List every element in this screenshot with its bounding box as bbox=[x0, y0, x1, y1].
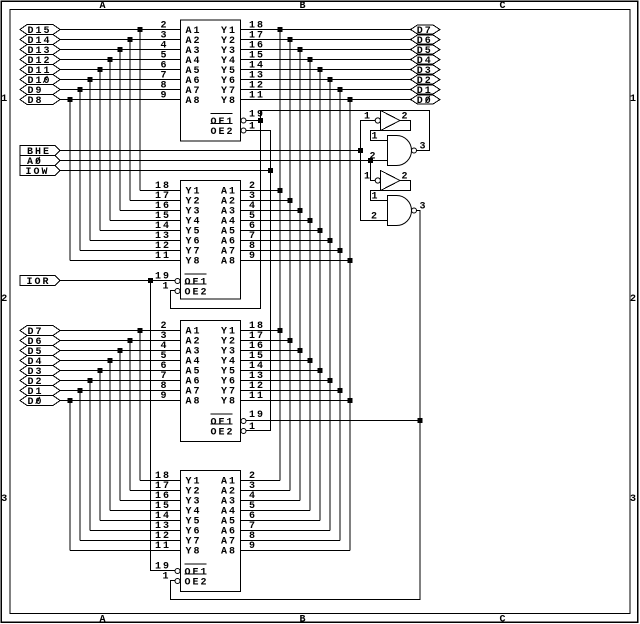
wire U3.Y1 pin to bus bbox=[241, 330, 281, 332]
svg-text:19: 19 bbox=[249, 410, 265, 421]
junction IOW/OE2 net bbox=[268, 168, 273, 173]
node D7 (lower-left connector) bbox=[20, 326, 60, 339]
svg-text:OE2: OE2 bbox=[185, 288, 209, 299]
junction U2.A7/bus bbox=[338, 248, 343, 253]
junction U2.A8/bus bbox=[348, 258, 353, 263]
junction D10/branch bbox=[88, 77, 93, 82]
junction U2.A6/bus bbox=[328, 238, 333, 243]
U2 pin 14 (Y5) label bbox=[155, 221, 202, 238]
wire D15 vertical to U2.Y1 bbox=[139, 30, 141, 191]
node D4 (lower-left connector) bbox=[20, 356, 60, 369]
wire D11 flag to U1.A5 bbox=[60, 69, 181, 71]
junction U1.Y1/bus bbox=[278, 27, 283, 32]
svg-text:3: 3 bbox=[420, 142, 428, 153]
U1 pin 14 (Y5) label bbox=[221, 61, 265, 78]
wire U7 output to NAND U6b input 1 bbox=[371, 181, 411, 203]
U1 pin 3 (A2) label bbox=[161, 31, 202, 48]
wire U3.Y2 pin to bus bbox=[241, 340, 291, 342]
svg-text:Y8: Y8 bbox=[186, 547, 202, 558]
wire U2.Y5 pin bbox=[100, 230, 181, 232]
wire D12 flag to U1.A4 bbox=[60, 59, 181, 61]
svg-text:3: 3 bbox=[1, 494, 9, 505]
U2 pin 8 (A7) label bbox=[221, 241, 257, 258]
wire U4.Y1 pin bbox=[140, 480, 181, 482]
junction U3.Y1/bus bbox=[278, 328, 283, 333]
wire U4.A4 pin bbox=[241, 510, 311, 512]
wire U4.A1 pin bbox=[241, 480, 281, 482]
junction U3.Y2/bus bbox=[288, 338, 293, 343]
U3 OE1 pin 19 (active-low, bubble) bbox=[211, 410, 266, 429]
svg-text:A8: A8 bbox=[186, 96, 202, 107]
junction U1.Y7/bus bbox=[338, 87, 343, 92]
junction A0 bbox=[368, 158, 373, 163]
junction U3.Y8/bus bbox=[348, 398, 353, 403]
wire U2.Y3 pin bbox=[120, 210, 181, 212]
U1 pin 6 (A5) label bbox=[161, 61, 202, 78]
svg-text:B: B bbox=[299, 1, 307, 12]
svg-text:1: 1 bbox=[630, 94, 638, 105]
wire A0 to U7 inverter input bbox=[371, 161, 376, 181]
node D5 (right connector) bbox=[411, 45, 441, 57]
wire U4.A3 pin bbox=[241, 500, 301, 502]
U2 pin 16 (Y3) label bbox=[155, 201, 202, 218]
wire U4.Y4 pin bbox=[110, 510, 181, 512]
wire D6 lower flag to U3.A2 bbox=[60, 340, 181, 342]
U1 pin 16 (Y3) label bbox=[221, 41, 265, 58]
U1 pin 11 (Y8) label bbox=[221, 91, 265, 108]
wire bus vertical B3 bbox=[319, 70, 321, 521]
U1 pin 8 (A7) label bbox=[161, 81, 202, 98]
wire D6 vertical to U4.Y2 bbox=[129, 341, 131, 491]
U4 pin 12 (Y7) label bbox=[155, 531, 202, 548]
junction IOR branch bbox=[148, 278, 153, 283]
U2 pin 5 (A4) label bbox=[221, 211, 257, 228]
svg-text:1: 1 bbox=[372, 132, 380, 143]
node D15 (left connector) bbox=[20, 25, 60, 38]
U1 pin 5 (A4) label bbox=[161, 51, 202, 68]
junction D1 lower/branch bbox=[78, 388, 83, 393]
U6a pin 2 label bbox=[370, 152, 378, 163]
U4 pin 3 (A2) label bbox=[221, 481, 257, 498]
svg-text:1: 1 bbox=[163, 572, 171, 583]
svg-text:1: 1 bbox=[364, 172, 372, 183]
wire U3.OE1 to NAND U6b net bbox=[246, 420, 420, 422]
svg-text:1: 1 bbox=[1, 94, 9, 105]
wire U3.Y4 pin to bus bbox=[241, 360, 311, 362]
wire U1.Y5 to D3 right flag bbox=[241, 69, 411, 71]
wire U4.Y2 pin bbox=[130, 490, 181, 492]
node D11 (left connector) bbox=[20, 65, 60, 78]
U3 pin 13 (Y6) label bbox=[221, 371, 265, 388]
wire U1.Y7 to D1 right flag bbox=[241, 89, 411, 91]
U3 pin 17 (Y2) label bbox=[221, 331, 265, 348]
wire U1.Y2 to D6 right flag bbox=[241, 39, 411, 41]
junction U2.A5/bus bbox=[318, 228, 323, 233]
junction D2 lower/branch bbox=[88, 378, 93, 383]
node IOW connector bbox=[20, 166, 60, 179]
U1 pin 15 (Y4) label bbox=[221, 51, 265, 68]
wire U2.A7 pin bbox=[241, 250, 341, 252]
wire U4.A7 pin bbox=[241, 540, 341, 542]
wire BHE to U5 inverter input bbox=[361, 121, 376, 151]
junction D15/branch bbox=[138, 27, 143, 32]
wire U4.Y7 pin bbox=[80, 540, 181, 542]
wire U2.A8 pin bbox=[241, 260, 351, 262]
wire D12 vertical to U2.Y4 bbox=[109, 60, 111, 221]
junction U3.Y6/bus bbox=[328, 378, 333, 383]
U2 OE2 pin 1 (active-low, bubble) bbox=[163, 282, 209, 299]
U3 pin 18 (Y1) label bbox=[221, 321, 265, 338]
node D3 (lower-left connector) bbox=[20, 366, 60, 379]
U4 pin 13 (Y6) label bbox=[155, 521, 202, 538]
grid row labels bbox=[1, 94, 638, 505]
wire U2.A6 pin bbox=[241, 240, 331, 242]
wire U4.A6 pin bbox=[241, 530, 331, 532]
node D10 (left connector) bbox=[20, 75, 60, 88]
inverter U5 (gate 1) bbox=[364, 111, 410, 131]
node D2 (lower-left connector) bbox=[20, 376, 60, 389]
U4 OE2 pin 1 (active-low, bubble) bbox=[163, 572, 209, 589]
wire bus vertical B6 bbox=[289, 40, 291, 491]
U1 OE2 pin 1 (active-low, bubble) bbox=[211, 122, 258, 139]
wire D0 vertical to U4.Y8 bbox=[69, 401, 71, 551]
wire U4.Y8 pin bbox=[70, 550, 181, 552]
node D5 (lower-left connector) bbox=[20, 346, 60, 359]
wire U4.A8 pin bbox=[241, 550, 351, 552]
node A0 connector bbox=[20, 156, 60, 169]
wire U1.OE2 / IOW net vertical to U3.OE2 bbox=[246, 131, 271, 431]
node D0 (right connector) bbox=[411, 95, 441, 107]
node D13 (left connector) bbox=[20, 45, 60, 58]
wire D0 lower flag to U3.A8 bbox=[60, 400, 181, 402]
junction D7 lower/branch bbox=[138, 328, 143, 333]
wire bus vertical B1 bbox=[339, 90, 341, 541]
wire U2.A3 pin bbox=[241, 210, 301, 212]
wire D11 vertical to U2.Y5 bbox=[99, 70, 101, 231]
node D1 (lower-left connector) bbox=[20, 386, 60, 399]
U4 pin 4 (A3) label bbox=[221, 491, 257, 508]
U1 pin 9 (A8) label bbox=[161, 91, 202, 108]
U1 pin 13 (Y6) label bbox=[221, 71, 265, 88]
svg-text:1: 1 bbox=[372, 192, 380, 203]
junction U1.Y5/bus bbox=[318, 67, 323, 72]
node D8 (left connector) bbox=[20, 95, 60, 108]
junction D0 lower/branch bbox=[68, 398, 73, 403]
wire U4.Y6 pin bbox=[90, 530, 181, 532]
wire D5 vertical to U4.Y3 bbox=[119, 351, 121, 501]
U1 pin 17 (Y2) label bbox=[221, 31, 265, 48]
wire NAND U6b output vertical to U4.OE2 bbox=[171, 211, 421, 600]
wire D9 vertical to U2.Y7 bbox=[79, 90, 81, 251]
node D2 (right connector) bbox=[411, 75, 441, 87]
svg-text:A8: A8 bbox=[186, 397, 202, 408]
U3 pin 12 (Y7) label bbox=[221, 381, 265, 398]
U3 pin 3 (A2) label bbox=[161, 331, 202, 348]
U4 pin 15 (Y4) label bbox=[155, 501, 202, 518]
wire D2 lower flag to U3.A6 bbox=[60, 380, 181, 382]
junction U2.A2/bus bbox=[288, 198, 293, 203]
U4 pin 7 (A6) label bbox=[221, 521, 257, 538]
wire U2.Y8 pin bbox=[70, 260, 181, 262]
U2 pin 13 (Y6) label bbox=[155, 231, 202, 248]
U2 pin 11 (Y8) label bbox=[155, 251, 202, 268]
nand U6a bbox=[388, 136, 428, 166]
junction U1.Y2/bus bbox=[288, 37, 293, 42]
U4 pin 9 (A8) label bbox=[221, 541, 257, 558]
wire D9 flag to U1.A7 bbox=[60, 89, 181, 91]
wire D4 vertical to U4.Y4 bbox=[109, 361, 111, 511]
U4 pin 17 (Y2) label bbox=[155, 481, 202, 498]
svg-text:A: A bbox=[99, 615, 107, 624]
wire IOR vertical to U4.OE1 bbox=[151, 281, 176, 571]
U4 pin 5 (A4) label bbox=[221, 501, 257, 518]
node D1 (right connector) bbox=[411, 85, 441, 97]
svg-text:3: 3 bbox=[420, 202, 428, 213]
U3 pin 9 (A8) label bbox=[161, 391, 202, 408]
svg-text:B: B bbox=[299, 615, 307, 624]
U3 OE2 pin 1 (active-low, bubble) bbox=[211, 422, 258, 439]
U6b pin 2 label bbox=[371, 212, 379, 223]
junction U3.Y3/bus bbox=[298, 348, 303, 353]
svg-text:1: 1 bbox=[249, 422, 257, 433]
U4 pin 11 (Y8) label bbox=[155, 541, 202, 558]
wire U3.Y3 pin to bus bbox=[241, 350, 301, 352]
wire D10 vertical to U2.Y6 bbox=[89, 80, 91, 241]
U4 pin 14 (Y5) label bbox=[155, 511, 202, 528]
U2 pin 4 (A3) label bbox=[221, 201, 257, 218]
U3 pin 5 (A4) label bbox=[161, 351, 202, 368]
junction U3.Y4/bus bbox=[308, 358, 313, 363]
inverter U7 (gate 2) bbox=[364, 171, 410, 191]
U4 pin 16 (Y3) label bbox=[155, 491, 202, 508]
nand U6b bbox=[388, 196, 428, 226]
wire U2.A5 pin bbox=[241, 230, 321, 232]
junction D6 lower/branch bbox=[128, 338, 133, 343]
U2 pin 12 (Y7) label bbox=[155, 241, 202, 258]
svg-text:Y8: Y8 bbox=[221, 397, 237, 408]
junction D14/branch bbox=[128, 37, 133, 42]
U2 pin 6 (A5) label bbox=[221, 221, 257, 238]
svg-text:2: 2 bbox=[371, 212, 379, 223]
junction D12/branch bbox=[108, 57, 113, 62]
wire D2 vertical to U4.Y6 bbox=[89, 381, 91, 531]
wire D3 vertical to U4.Y5 bbox=[99, 371, 101, 521]
svg-text:Y8: Y8 bbox=[186, 257, 202, 268]
wire U3.Y6 pin to bus bbox=[241, 380, 331, 382]
svg-text:A8: A8 bbox=[221, 547, 237, 558]
junction U1.Y4/bus bbox=[308, 57, 313, 62]
U4 pin 2 (A1) label bbox=[221, 471, 257, 488]
svg-text:IOW: IOW bbox=[26, 167, 50, 178]
U2 pin 3 (A2) label bbox=[221, 191, 257, 208]
wire U2.A2 pin bbox=[241, 200, 291, 202]
IC U1 body bbox=[181, 20, 241, 141]
U3 pin 15 (Y4) label bbox=[221, 351, 265, 368]
U3 pin 2 (A1) label bbox=[161, 321, 202, 338]
wire U2.Y1 pin bbox=[140, 190, 181, 192]
junction U2.A4/bus bbox=[308, 218, 313, 223]
wire U1.Y8 to D0 right flag bbox=[241, 99, 411, 101]
U3 pin 16 (Y3) label bbox=[221, 341, 265, 358]
node D6 (right connector) bbox=[411, 35, 441, 47]
U4 pin 8 (A7) label bbox=[221, 531, 257, 548]
wire U2.A1 pin bbox=[241, 190, 281, 192]
wire U1.Y4 to D4 right flag bbox=[241, 59, 411, 61]
grid column labels bbox=[99, 1, 507, 624]
U1 pin 12 (Y7) label bbox=[221, 81, 265, 98]
wire D14 vertical to U2.Y2 bbox=[129, 40, 131, 201]
U1 pin 4 (A3) label bbox=[161, 41, 202, 58]
U1 OE1 pin 19 (active-low, bubble) bbox=[211, 110, 266, 129]
U1 pin 18 (Y1) label bbox=[221, 21, 265, 38]
node D12 (left connector) bbox=[20, 55, 60, 68]
wire D8 flag to U1.A8 bbox=[60, 99, 181, 101]
wire D13 flag to U1.A3 bbox=[60, 49, 181, 51]
svg-text:D0: D0 bbox=[417, 96, 433, 107]
wire U3.Y5 pin to bus bbox=[241, 370, 321, 372]
node D7 (right connector) bbox=[411, 25, 441, 37]
IC U4 body bbox=[181, 471, 241, 592]
IC U3 body bbox=[181, 321, 241, 442]
wire A0 bbox=[60, 160, 388, 162]
wire D7 vertical to U4.Y1 bbox=[139, 331, 141, 481]
wire U2.Y4 pin bbox=[110, 220, 181, 222]
svg-text:C: C bbox=[499, 1, 507, 12]
wire D3 lower flag to U3.A5 bbox=[60, 370, 181, 372]
wire IOR to U2.OE1 bbox=[60, 280, 175, 282]
U4 pin 6 (A5) label bbox=[221, 511, 257, 528]
wire U2.Y2 pin bbox=[130, 200, 181, 202]
wire U2.Y6 pin bbox=[90, 240, 181, 242]
wire U5 output to NAND U6a input 1 bbox=[371, 121, 411, 143]
wire U1.OE1 down to U2.OE2 bbox=[171, 121, 261, 309]
wire U1.OE1 stub bbox=[246, 120, 261, 122]
wire U3.Y7 pin to bus bbox=[241, 390, 341, 392]
U3 pin 8 (A7) label bbox=[161, 381, 202, 398]
wire U2.A4 pin bbox=[241, 220, 311, 222]
svg-text:A8: A8 bbox=[221, 257, 237, 268]
svg-text:OE2: OE2 bbox=[211, 428, 235, 439]
wire U4.Y5 pin bbox=[100, 520, 181, 522]
junction D5 lower/branch bbox=[118, 348, 123, 353]
U2 pin 7 (A6) label bbox=[221, 231, 257, 248]
wire U4.A5 pin bbox=[241, 520, 321, 522]
U3 pin 6 (A5) label bbox=[161, 361, 202, 378]
wire BHE bbox=[60, 150, 361, 152]
junction D11/branch bbox=[98, 67, 103, 72]
junction U1.Y6/bus bbox=[328, 77, 333, 82]
node D3 (right connector) bbox=[411, 65, 441, 77]
junction U3.Y7/bus bbox=[338, 388, 343, 393]
junction BHE bbox=[358, 148, 363, 153]
wire U4.Y3 pin bbox=[120, 500, 181, 502]
node D4 (right connector) bbox=[411, 55, 441, 67]
junction D8/branch bbox=[68, 97, 73, 102]
svg-text:D0: D0 bbox=[28, 397, 44, 408]
wire U1.Y1 to D7 right flag bbox=[241, 29, 411, 31]
wire U3.Y8 pin to bus bbox=[241, 400, 351, 402]
svg-text:2: 2 bbox=[1, 294, 9, 305]
wire D1 vertical to U4.Y7 bbox=[79, 391, 81, 541]
wire D1 lower flag to U3.A7 bbox=[60, 390, 181, 392]
junction D13/branch bbox=[118, 47, 123, 52]
junction U3.Y5/bus bbox=[318, 368, 323, 373]
U1 pin 2 (A1) label bbox=[161, 21, 202, 38]
junction U1.Y8/bus bbox=[348, 97, 353, 102]
wire D8 vertical to U2.Y8 bbox=[69, 100, 71, 261]
U1 pin 7 (A6) label bbox=[161, 71, 202, 88]
svg-text:IOR: IOR bbox=[27, 277, 51, 288]
svg-text:1: 1 bbox=[163, 282, 171, 293]
node D0 (lower-left connector) bbox=[20, 396, 60, 409]
svg-text:D8: D8 bbox=[28, 96, 44, 107]
wire D14 flag to U1.A2 bbox=[60, 39, 181, 41]
svg-text:A: A bbox=[99, 1, 107, 12]
U4 pin 18 (Y1) label bbox=[155, 471, 202, 488]
wire bus vertical B2 bbox=[329, 80, 331, 531]
svg-text:Y8: Y8 bbox=[221, 96, 237, 107]
junction U1.OE1 bbox=[258, 118, 263, 123]
wire D15 flag to U1.A1 bbox=[60, 29, 181, 31]
wire U1.OE1 to NAND U6a output bbox=[261, 111, 430, 151]
wire U4.A2 pin bbox=[241, 490, 291, 492]
wire D4 lower flag to U3.A4 bbox=[60, 360, 181, 362]
wire bus vertical B4 bbox=[309, 60, 311, 511]
junction U3.OE1/NAND net bbox=[418, 418, 423, 423]
node BHE connector bbox=[20, 146, 60, 159]
slashed zero marks bbox=[36, 76, 430, 404]
U2 OE1 pin 19 (active-low, bubble) bbox=[155, 272, 209, 289]
U4 OE1 pin 19 (active-low, bubble) bbox=[155, 562, 209, 579]
U2 pin 9 (A8) label bbox=[221, 251, 257, 268]
svg-text:2: 2 bbox=[370, 152, 378, 163]
wire D7 lower flag to U3.A1 bbox=[60, 330, 181, 332]
U2 pin 18 (Y1) label bbox=[155, 181, 202, 198]
IC U2 body bbox=[181, 181, 241, 300]
svg-text:OE2: OE2 bbox=[185, 578, 209, 589]
wire D5 lower flag to U3.A3 bbox=[60, 350, 181, 352]
node IOR connector bbox=[20, 276, 60, 289]
svg-text:OE2: OE2 bbox=[211, 127, 235, 138]
wire IOW bbox=[60, 170, 271, 172]
U2 pin 17 (Y2) label bbox=[155, 191, 202, 208]
junction D3 lower/branch bbox=[98, 368, 103, 373]
junction D9/branch bbox=[78, 87, 83, 92]
U3 pin 4 (A3) label bbox=[161, 341, 202, 358]
node D6 (lower-left connector) bbox=[20, 336, 60, 349]
wire bus vertical B5 bbox=[299, 50, 301, 501]
junction D4 lower/branch bbox=[108, 358, 113, 363]
junction U2.A1/bus bbox=[278, 188, 283, 193]
wire D10 flag to U1.A6 bbox=[60, 79, 181, 81]
wire BHE to NAND U6 pin2 bbox=[361, 151, 388, 221]
U2 pin 2 (A1) label bbox=[221, 181, 257, 198]
U2 pin 15 (Y4) label bbox=[155, 211, 202, 228]
wire U1.Y3 to D5 right flag bbox=[241, 49, 411, 51]
svg-text:2: 2 bbox=[630, 294, 638, 305]
U3 pin 11 (Y8) label bbox=[221, 391, 265, 408]
svg-text:1: 1 bbox=[364, 112, 372, 123]
wire U2.Y7 pin bbox=[80, 250, 181, 252]
junction U2.A3/bus bbox=[298, 208, 303, 213]
wire bus vertical B7 bbox=[279, 30, 281, 481]
wire bus vertical B0 bbox=[349, 100, 351, 551]
U3 pin 7 (A6) label bbox=[161, 371, 202, 388]
node D14 (left connector) bbox=[20, 35, 60, 48]
svg-text:C: C bbox=[499, 615, 507, 624]
wire U1.Y6 to D2 right flag bbox=[241, 79, 411, 81]
U3 pin 14 (Y5) label bbox=[221, 361, 265, 378]
